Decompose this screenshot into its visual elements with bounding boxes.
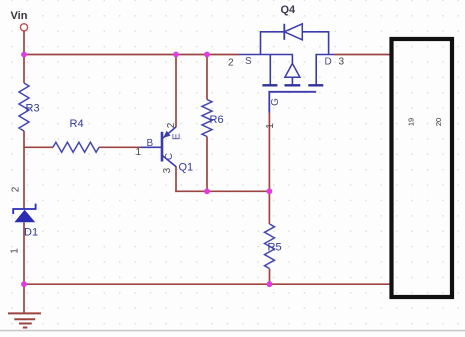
junction at R5 / ground rail xyxy=(267,281,273,287)
svg-text:D1: D1 xyxy=(24,227,38,239)
wire top-right to connector xyxy=(334,54,390,56)
resistor R5 xyxy=(265,224,275,269)
Q4 pin G name (rotated) xyxy=(270,98,281,106)
svg-text:1: 1 xyxy=(10,248,21,254)
resistor R6 xyxy=(202,100,212,137)
Q4 pin 3 number xyxy=(339,57,345,68)
mosfet Q4 channel contact bars xyxy=(262,84,323,86)
svg-text:R4: R4 xyxy=(70,118,84,130)
wire R5 bottom stub xyxy=(269,269,271,285)
label R6 xyxy=(210,114,224,126)
wire lower horizontal (collector to gate net) xyxy=(175,190,269,192)
Q4 pin S name xyxy=(245,56,252,67)
resistor R4 xyxy=(53,142,99,152)
Q1 pin C name (rotated) xyxy=(164,153,175,160)
mosfet Q4 substrate arrow xyxy=(285,63,300,84)
junction at Vin / top rail xyxy=(21,52,27,58)
D1 pin 2 number (rotated) xyxy=(11,186,22,192)
svg-text:D: D xyxy=(325,57,332,68)
svg-text:R3: R3 xyxy=(26,103,40,115)
wire R6 top vertical xyxy=(206,55,208,100)
Q1 pin 3 number (rotated) xyxy=(162,167,173,173)
wire left vertical R3-to-D1 segment xyxy=(23,131,25,209)
svg-text:S: S xyxy=(245,56,252,67)
zener diode D1 cathode bar xyxy=(13,204,35,214)
label R4 xyxy=(70,118,84,130)
svg-text:2: 2 xyxy=(166,122,177,128)
Q4 pin 2 number xyxy=(228,58,234,69)
bottom window border line xyxy=(0,330,465,332)
wire R4 row right stub to Q1 base xyxy=(99,146,141,148)
svg-text:2: 2 xyxy=(11,186,22,192)
svg-text:19: 19 xyxy=(406,118,415,126)
junction at R6 / top rail xyxy=(204,52,210,58)
svg-text:2: 2 xyxy=(228,58,234,69)
mosfet Q4 source lead and substrate top xyxy=(239,55,292,64)
connector pin label 19 (rotated) xyxy=(406,118,415,126)
label Q1 xyxy=(179,162,194,174)
zener diode D1 triangle xyxy=(14,210,35,223)
svg-text:1: 1 xyxy=(265,123,276,129)
junction at emitter / top rail xyxy=(173,52,179,58)
junction at ground rail left xyxy=(21,281,27,287)
label R3 xyxy=(26,103,40,115)
resistor R3 xyxy=(19,83,29,131)
svg-text:3: 3 xyxy=(162,167,173,173)
wire Q1 emitter vertical xyxy=(175,55,177,128)
connector block xyxy=(392,39,453,297)
svg-text:B: B xyxy=(147,138,154,149)
label R5 xyxy=(268,242,282,254)
ground symbol xyxy=(8,313,41,327)
mosfet Q4 body diode triangle xyxy=(284,24,302,40)
Q4 pin D name xyxy=(325,57,332,68)
Q1 pin 1 number xyxy=(136,147,142,158)
svg-text:Q4: Q4 xyxy=(281,4,297,16)
mosfet Q4 body diode loop left stub xyxy=(261,32,285,55)
wire R4 row left stub xyxy=(24,146,53,148)
junction at gate / lower wire xyxy=(267,188,273,194)
svg-text:R6: R6 xyxy=(210,114,224,126)
svg-text:R5: R5 xyxy=(268,242,282,254)
node Vin label xyxy=(11,10,28,22)
label Q4 xyxy=(281,4,297,16)
mosfet Q4 body diode loop right stub xyxy=(302,32,328,55)
wire bottom ground rail xyxy=(24,283,390,285)
Q1 pin E name (rotated) xyxy=(171,133,182,140)
mosfet Q4 right channel stub and drain lead xyxy=(316,55,334,85)
Q1 pin B name xyxy=(147,138,154,149)
svg-text:G: G xyxy=(270,98,281,106)
wire Vin vertical upper segment xyxy=(23,31,25,83)
Q4 pin 1 number (rotated) xyxy=(265,123,276,129)
svg-text:3: 3 xyxy=(339,57,345,68)
transistor Q1 emitter lead with arrow xyxy=(162,127,176,139)
junction at R6 / lower wire xyxy=(204,188,210,194)
wire Q1 collector vertical xyxy=(175,166,177,192)
wire R6 bottom vertical xyxy=(206,137,208,192)
svg-text:1: 1 xyxy=(136,147,142,158)
connector pin label 20 (rotated) xyxy=(434,118,443,126)
svg-text:Vin: Vin xyxy=(11,10,28,22)
svg-text:Q1: Q1 xyxy=(179,162,194,174)
mosfet Q4 gate plate and lead xyxy=(269,92,316,113)
wire D1-to-ground segment xyxy=(23,222,25,313)
svg-text:E: E xyxy=(171,133,182,140)
mosfet Q4 body diode cathode bar xyxy=(283,24,285,40)
D1 pin 1 number (rotated) xyxy=(10,248,21,254)
Vin terminal circle xyxy=(20,24,27,31)
mosfet Q4 left channel stub xyxy=(269,55,271,85)
wire top horizontal rail xyxy=(24,54,239,56)
Q1 pin 2 number (rotated) xyxy=(166,122,177,128)
svg-text:C: C xyxy=(164,153,175,160)
wire gate vertical to R5 xyxy=(268,113,270,225)
transistor Q1 body bar xyxy=(161,132,164,162)
label D1 xyxy=(24,227,38,239)
transistor Q1 base lead xyxy=(141,146,163,148)
svg-text:20: 20 xyxy=(434,118,443,126)
transistor Q1 collector lead xyxy=(162,155,176,166)
